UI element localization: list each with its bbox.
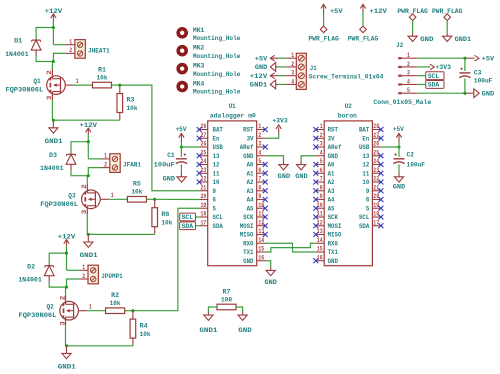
- svg-text:4: 4: [291, 78, 294, 85]
- svg-text:Mounting_Hole: Mounting_Hole: [193, 71, 241, 78]
- svg-text:20: 20: [201, 193, 207, 200]
- svg-text:21: 21: [373, 184, 379, 191]
- svg-text:10: 10: [317, 202, 323, 209]
- svg-text:GND: GND: [265, 279, 277, 286]
- svg-text:+5V: +5V: [482, 55, 495, 62]
- svg-text:SDA: SDA: [213, 223, 223, 230]
- svg-text:3: 3: [46, 96, 53, 101]
- svg-text:SCK: SCK: [243, 214, 253, 221]
- svg-text:23: 23: [201, 167, 207, 174]
- svg-text:PWR_FLAG: PWR_FLAG: [308, 35, 339, 42]
- svg-text:A1: A1: [247, 170, 254, 177]
- svg-text:5: 5: [258, 158, 261, 165]
- svg-text:24: 24: [373, 158, 379, 165]
- svg-text:SCL: SCL: [428, 73, 440, 80]
- svg-text:GND1: GND1: [80, 252, 98, 259]
- svg-text:19: 19: [373, 202, 379, 209]
- svg-text:+5V: +5V: [330, 8, 343, 15]
- svg-text:10k: 10k: [131, 189, 142, 196]
- svg-text:3: 3: [291, 70, 294, 77]
- svg-text:GND: GND: [295, 173, 307, 180]
- svg-text:USB: USB: [359, 144, 369, 151]
- svg-text:J2: J2: [396, 42, 403, 49]
- svg-text:100uF: 100uF: [474, 78, 493, 85]
- svg-text:ARef: ARef: [328, 144, 342, 151]
- svg-text:15: 15: [317, 246, 323, 253]
- svg-text:GND: GND: [278, 173, 290, 180]
- svg-text:SCL: SCL: [359, 214, 369, 221]
- svg-text:A3: A3: [328, 188, 335, 195]
- svg-text:5: 5: [407, 87, 410, 94]
- svg-text:BAT: BAT: [359, 127, 369, 134]
- svg-text:1: 1: [111, 192, 114, 199]
- svg-text:1N4001: 1N4001: [18, 277, 42, 284]
- svg-text:25: 25: [373, 149, 379, 156]
- svg-text:SCL: SCL: [213, 214, 223, 221]
- svg-text:+5V: +5V: [393, 126, 404, 133]
- svg-text:1: 1: [291, 52, 294, 59]
- svg-text:28: 28: [373, 123, 379, 130]
- svg-text:A2: A2: [247, 179, 254, 186]
- svg-text:R4: R4: [140, 322, 148, 329]
- svg-text:10k: 10k: [140, 331, 151, 338]
- svg-text:1: 1: [82, 264, 85, 271]
- svg-text:RST: RST: [328, 127, 338, 134]
- svg-text:SDA: SDA: [182, 223, 194, 230]
- svg-text:GND1: GND1: [250, 82, 268, 89]
- svg-text:GND: GND: [420, 36, 433, 43]
- svg-text:10k: 10k: [127, 105, 138, 112]
- svg-text:3: 3: [320, 141, 323, 148]
- svg-text:1N4001: 1N4001: [40, 165, 64, 172]
- svg-text:8: 8: [320, 184, 323, 191]
- svg-text:+5V: +5V: [255, 55, 268, 62]
- svg-text:FQP30N06L: FQP30N06L: [19, 312, 57, 319]
- svg-text:C2: C2: [407, 152, 415, 159]
- svg-text:11: 11: [317, 211, 323, 218]
- svg-text:2: 2: [81, 184, 88, 189]
- svg-text:PWR_FLAG: PWR_FLAG: [348, 35, 379, 42]
- svg-text:10k: 10k: [110, 300, 121, 307]
- svg-text:MK2: MK2: [193, 45, 205, 52]
- svg-text:16: 16: [317, 254, 323, 261]
- svg-text:100: 100: [221, 297, 232, 304]
- svg-text:A5: A5: [328, 205, 335, 212]
- svg-text:D3: D3: [49, 152, 57, 159]
- svg-text:adalogger m0: adalogger m0: [210, 113, 256, 120]
- svg-text:10: 10: [362, 179, 369, 186]
- svg-text:GND1: GND1: [199, 327, 217, 334]
- svg-text:SDA: SDA: [359, 223, 369, 230]
- svg-text:SCK: SCK: [328, 214, 338, 221]
- svg-text:3: 3: [81, 210, 88, 215]
- svg-text:A5: A5: [247, 205, 254, 212]
- svg-text:MK1: MK1: [193, 27, 205, 34]
- svg-text:JFAN1: JFAN1: [123, 162, 141, 169]
- svg-text:1: 1: [89, 304, 92, 311]
- svg-text:R6: R6: [161, 211, 169, 218]
- svg-text:1: 1: [69, 39, 72, 46]
- svg-text:GND1: GND1: [45, 138, 63, 145]
- svg-text:GND: GND: [163, 175, 175, 182]
- svg-text:16: 16: [258, 254, 264, 261]
- svg-text:3: 3: [258, 141, 261, 148]
- svg-text:MISO: MISO: [240, 232, 254, 239]
- svg-text:JPUMP1: JPUMP1: [101, 273, 123, 280]
- svg-text:BAT: BAT: [213, 127, 223, 134]
- svg-text:A1: A1: [328, 170, 335, 177]
- svg-text:11: 11: [258, 211, 264, 218]
- svg-text:8: 8: [258, 184, 261, 191]
- svg-text:FQP30N06L: FQP30N06L: [5, 87, 43, 94]
- svg-text:A3: A3: [247, 188, 254, 195]
- svg-text:GND: GND: [393, 184, 405, 191]
- svg-text:6: 6: [366, 197, 369, 204]
- svg-text:10: 10: [258, 202, 264, 209]
- svg-text:J1: J1: [310, 65, 317, 72]
- svg-text:15: 15: [258, 246, 264, 253]
- svg-text:Mounting_Hole: Mounting_Hole: [193, 53, 241, 60]
- svg-text:5: 5: [213, 205, 216, 212]
- svg-text:5: 5: [320, 158, 323, 165]
- svg-text:9: 9: [366, 188, 369, 195]
- svg-text:2: 2: [82, 273, 85, 280]
- svg-text:1: 1: [76, 78, 79, 85]
- svg-text:2: 2: [291, 61, 294, 68]
- svg-text:1: 1: [258, 123, 261, 130]
- svg-text:13: 13: [362, 153, 369, 160]
- svg-text:3: 3: [59, 321, 66, 326]
- svg-text:2: 2: [46, 70, 53, 75]
- svg-text:1: 1: [104, 153, 107, 160]
- svg-text:6: 6: [258, 167, 261, 174]
- svg-text:17: 17: [373, 219, 379, 226]
- svg-text:A2: A2: [328, 179, 335, 186]
- svg-text:1: 1: [320, 123, 323, 130]
- svg-text:FQP30N06L: FQP30N06L: [40, 201, 78, 208]
- svg-text:11: 11: [213, 170, 220, 177]
- svg-text:2: 2: [320, 132, 323, 139]
- svg-text:R5: R5: [133, 181, 141, 188]
- svg-text:12: 12: [213, 162, 220, 169]
- svg-text:Mounting_Hole: Mounting_Hole: [193, 89, 241, 96]
- svg-text:12: 12: [258, 219, 264, 226]
- svg-text:17: 17: [201, 219, 207, 226]
- svg-text:MISO: MISO: [328, 232, 342, 239]
- svg-text:6: 6: [213, 197, 216, 204]
- svg-text:R1: R1: [98, 66, 106, 73]
- svg-text:2: 2: [407, 61, 410, 68]
- svg-text:RX0: RX0: [328, 240, 338, 247]
- svg-text:5: 5: [366, 205, 369, 212]
- svg-text:1: 1: [407, 52, 410, 59]
- svg-text:MK3: MK3: [193, 63, 205, 70]
- svg-text:25: 25: [201, 149, 207, 156]
- svg-text:11: 11: [362, 170, 369, 177]
- svg-text:22: 22: [201, 176, 207, 183]
- svg-text:Mounting_Hole: Mounting_Hole: [193, 35, 241, 42]
- svg-text:GND: GND: [243, 153, 253, 160]
- svg-text:U1: U1: [229, 103, 236, 110]
- svg-text:USB: USB: [213, 144, 223, 151]
- svg-text:C3: C3: [474, 69, 482, 76]
- svg-text:19: 19: [201, 202, 207, 209]
- svg-text:10k: 10k: [97, 74, 108, 81]
- svg-text:GND: GND: [238, 327, 252, 334]
- svg-text:TX1: TX1: [243, 249, 253, 256]
- svg-text:Q3: Q3: [68, 192, 75, 199]
- svg-text:R2: R2: [111, 292, 119, 299]
- svg-text:7: 7: [258, 176, 261, 183]
- svg-text:3V: 3V: [247, 135, 254, 142]
- svg-text:MOSI: MOSI: [328, 223, 342, 230]
- svg-text:13: 13: [213, 153, 220, 160]
- svg-text:+3V3: +3V3: [436, 64, 451, 71]
- svg-text:27: 27: [373, 132, 379, 139]
- svg-text:GND: GND: [328, 258, 338, 265]
- svg-text:26: 26: [373, 141, 379, 148]
- svg-text:24: 24: [201, 158, 207, 165]
- svg-text:A0: A0: [328, 162, 335, 169]
- svg-text:RX0: RX0: [243, 240, 253, 247]
- svg-text:A0: A0: [247, 162, 254, 169]
- svg-text:MOSI: MOSI: [240, 223, 254, 230]
- svg-text:C1: C1: [167, 152, 175, 159]
- svg-text:TX1: TX1: [328, 249, 338, 256]
- svg-text:9: 9: [320, 193, 323, 200]
- svg-text:GND1: GND1: [58, 363, 76, 370]
- svg-text:12: 12: [362, 162, 369, 169]
- svg-text:SCL: SCL: [182, 214, 194, 221]
- svg-text:18: 18: [201, 211, 207, 218]
- svg-text:18: 18: [373, 211, 379, 218]
- svg-text:100uF: 100uF: [407, 161, 426, 168]
- svg-text:SDA: SDA: [428, 82, 440, 89]
- svg-text:3: 3: [407, 70, 410, 77]
- svg-text:2: 2: [59, 296, 66, 301]
- svg-text:9: 9: [213, 188, 216, 195]
- svg-text:+3V3: +3V3: [272, 117, 287, 124]
- svg-text:1N4001: 1N4001: [5, 51, 29, 58]
- svg-text:6: 6: [320, 167, 323, 174]
- svg-text:U2: U2: [345, 103, 352, 110]
- svg-text:9: 9: [258, 193, 261, 200]
- svg-text:GND: GND: [255, 64, 267, 71]
- svg-text:21: 21: [201, 184, 207, 191]
- svg-text:20: 20: [373, 193, 379, 200]
- svg-text:R3: R3: [127, 97, 135, 104]
- svg-text:2: 2: [258, 132, 261, 139]
- svg-text:D1: D1: [14, 38, 22, 45]
- svg-text:ARef: ARef: [240, 144, 254, 151]
- svg-text:+5V: +5V: [176, 126, 187, 133]
- svg-text:RST: RST: [243, 127, 253, 134]
- svg-text:4: 4: [258, 149, 261, 156]
- svg-text:14: 14: [317, 237, 323, 244]
- svg-text:Conn_01x05_Male: Conn_01x05_Male: [373, 99, 431, 106]
- svg-text:4: 4: [320, 149, 323, 156]
- svg-text:En: En: [213, 135, 220, 142]
- svg-text:12: 12: [317, 219, 323, 226]
- svg-text:En: En: [362, 135, 369, 142]
- svg-text:26: 26: [201, 141, 207, 148]
- svg-text:100uF: 100uF: [154, 161, 175, 168]
- svg-text:A4: A4: [247, 197, 254, 204]
- svg-text:7: 7: [320, 176, 323, 183]
- svg-text:28: 28: [201, 123, 207, 130]
- svg-text:GND: GND: [482, 90, 494, 97]
- svg-text:2: 2: [69, 47, 72, 54]
- svg-text:Q2: Q2: [47, 304, 54, 311]
- svg-text:13: 13: [258, 228, 264, 235]
- svg-text:23: 23: [373, 167, 379, 174]
- svg-text:14: 14: [258, 237, 264, 244]
- svg-text:+12V: +12V: [369, 8, 387, 15]
- svg-text:R7: R7: [223, 289, 231, 296]
- svg-text:GND: GND: [328, 153, 338, 160]
- svg-text:27: 27: [201, 132, 207, 139]
- svg-text:3V: 3V: [328, 135, 335, 142]
- svg-text:MK4: MK4: [193, 81, 205, 88]
- svg-text:2: 2: [104, 161, 107, 168]
- svg-text:10k: 10k: [161, 219, 172, 226]
- svg-text:D2: D2: [27, 263, 35, 270]
- svg-text:boron: boron: [338, 113, 357, 120]
- svg-text:A4: A4: [328, 197, 335, 204]
- svg-text:10: 10: [213, 179, 220, 186]
- svg-text:GND: GND: [243, 258, 253, 265]
- svg-text:GND1: GND1: [455, 36, 472, 43]
- svg-text:22: 22: [373, 176, 379, 183]
- svg-text:Q1: Q1: [33, 78, 40, 85]
- svg-text:+12V: +12V: [250, 73, 268, 80]
- svg-text:4: 4: [407, 78, 410, 85]
- svg-text:13: 13: [317, 228, 323, 235]
- svg-text:JHEAT1: JHEAT1: [88, 48, 110, 55]
- svg-text:Screw_Terminal_01x04: Screw_Terminal_01x04: [309, 73, 384, 80]
